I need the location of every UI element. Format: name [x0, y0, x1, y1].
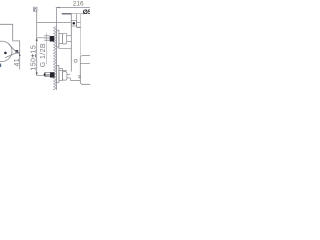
bracket verticals	[76, 14, 78, 28]
upper union dark body	[50, 36, 55, 42]
hand shower body	[80, 56, 90, 85]
upper union thread	[44, 36, 50, 40]
lower union extension	[37, 75, 50, 77]
small screw circle	[74, 59, 77, 62]
upper union extension	[37, 37, 47, 39]
diameter label line	[71, 13, 90, 15]
knob circle	[0, 41, 12, 61]
left figure: block	[13, 41, 20, 53]
41 dim arrow	[19, 53, 21, 56]
svg-text:G 1/2B: G 1/2B	[40, 43, 47, 67]
dim arrow down at lower extension	[36, 72, 38, 75]
bracket arms	[77, 21, 81, 23]
lower corner line	[59, 70, 67, 82]
lower union dark body	[50, 72, 55, 77]
lower union thread	[44, 73, 50, 77]
wall hatch	[54, 27, 57, 91]
knob axis dot	[4, 52, 7, 55]
41 dim line	[19, 53, 21, 70]
holder nub	[79, 76, 80, 78]
tiny top symbol	[33, 7, 37, 11]
extension line from dim to rail	[37, 21, 72, 23]
left figure: body rect	[0, 24, 13, 41]
hose drop line	[70, 78, 80, 81]
wedge pointer	[5, 44, 16, 57]
block dark detail	[15, 50, 18, 53]
216 dimension line	[56, 7, 90, 9]
svg-text:41: 41	[14, 58, 21, 67]
150 dim vertical line	[36, 9, 38, 76]
dim arrow up at upper extension	[36, 38, 38, 41]
wall surface line	[56, 7, 58, 90]
background	[0, 0, 90, 90]
svg-text:150±15: 150±15	[30, 45, 37, 71]
41 tick	[16, 52, 20, 54]
G1/2 leader vertical	[46, 33, 48, 64]
slider block with screw	[71, 21, 76, 26]
upper corner line	[59, 44, 71, 48]
dim arrow 216	[57, 7, 60, 9]
svg-text:216: 216	[73, 1, 84, 8]
rail vertical line	[70, 14, 72, 72]
lower connection escutcheon	[57, 65, 71, 82]
upper connection escutcheon	[57, 30, 72, 47]
shower rail top cap	[62, 13, 72, 15]
G1/2 leader arrowhead	[43, 72, 45, 76]
hand shower divider	[80, 62, 90, 64]
svg-text:Ø5: Ø5	[83, 9, 90, 16]
edge glyph fragment	[0, 64, 1, 67]
